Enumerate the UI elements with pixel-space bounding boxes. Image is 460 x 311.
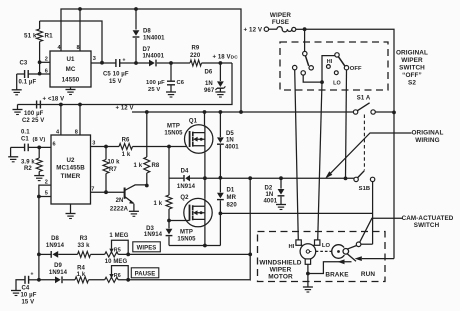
cam follower contact [343, 249, 349, 255]
label 2222A [110, 207, 129, 213]
svg-text:MTP: MTP [180, 229, 193, 235]
wiper fuse [269, 27, 305, 32]
svg-text:C1: C1 [21, 136, 29, 142]
wire node up to pole right [322, 56, 335, 83]
svg-text:PAUSE: PAUSE [135, 272, 156, 278]
switch blade S1B [358, 171, 365, 178]
wire U2 pin8 drop [79, 105, 81, 136]
label 1 k gate resistor [154, 201, 163, 207]
pin label U1-4 [58, 45, 62, 51]
label R3 [80, 236, 88, 242]
zener diode D6 [215, 63, 225, 92]
pin label U1-8 [77, 45, 80, 51]
svg-text:4001: 4001 [264, 199, 278, 205]
ground for C4 [11, 291, 21, 296]
boxed label PAUSE [131, 268, 159, 278]
wire gate line to Q1 [133, 146, 190, 148]
label D8 [143, 29, 151, 35]
label D7 [143, 47, 151, 53]
label WINDSHIELD WIPER MOTOR [259, 259, 301, 280]
node pin2/pin5 junction [37, 195, 41, 199]
label motor HI [289, 244, 295, 250]
arrowhead RUN [355, 256, 362, 261]
wire RUN return [362, 258, 394, 260]
node +18 VDC [219, 61, 223, 65]
node C6 tap [169, 61, 173, 65]
contact pole right S2 [335, 53, 339, 57]
capacitor C5 [116, 58, 149, 68]
node D4 to Q1 source / Q2 drain [203, 176, 207, 180]
wire source rail [169, 245, 220, 247]
label C3 value 0.1 uF [19, 80, 37, 86]
diode D2 [278, 178, 285, 204]
node U2 pin8 supply [78, 103, 82, 107]
node S1A column [392, 111, 396, 115]
node U2 pin4 supply [59, 103, 63, 107]
svg-text:LO: LO [322, 243, 331, 249]
svg-text:WIRING: WIRING [415, 137, 439, 144]
label D3 part 1N914 [144, 232, 163, 238]
ground for C3 [12, 74, 22, 95]
label C2 25 V [22, 118, 44, 124]
label C4 [22, 286, 30, 292]
svg-text:100 µF: 100 µF [146, 80, 165, 86]
contact S1B left [354, 177, 358, 181]
svg-text:0.1 µF: 0.1 µF [19, 80, 37, 86]
label D2 [265, 185, 273, 191]
pin label U2-8 [75, 130, 78, 136]
svg-text:0.1: 0.1 [21, 130, 30, 136]
svg-text:(8 V): (8 V) [33, 137, 46, 143]
node D1 bottom junction [219, 212, 223, 216]
wire U2 pin2 loop [39, 185, 51, 196]
label D6 part 967 [204, 88, 215, 94]
svg-text:C3: C3 [20, 61, 28, 67]
label D1 [227, 187, 235, 193]
label R1 value 51 k [24, 32, 37, 39]
IC U1 box [50, 51, 91, 87]
svg-text:WIPES: WIPES [137, 246, 157, 252]
pin label U1-2 [45, 57, 48, 63]
node R7 bottom on pin7 line [104, 190, 108, 194]
wire pause line right [118, 279, 250, 281]
label R6 value 1 k [122, 152, 131, 158]
svg-text:R9: R9 [192, 46, 200, 52]
contact S1A left [353, 110, 357, 114]
label R6 [122, 138, 130, 144]
label Q1 MTP [167, 123, 180, 129]
node run/pot column [248, 176, 252, 180]
label R4 [77, 266, 85, 272]
svg-text:4001: 4001 [225, 144, 239, 150]
ground for motor [303, 287, 313, 292]
svg-text:+: + [31, 272, 34, 278]
wire Q2 gate lead [169, 220, 190, 222]
ground for C1 [8, 147, 18, 161]
svg-text:51 k: 51 k [24, 32, 37, 39]
svg-text:+ 12 V: + 12 V [244, 27, 263, 34]
svg-text:ORIGINAL: ORIGINAL [411, 129, 443, 136]
wire pots column [249, 178, 251, 280]
svg-text:3.9 k: 3.9 k [21, 160, 35, 166]
callout CAM-ACTUATED line [360, 218, 403, 242]
label U2 TIMER [61, 173, 81, 180]
contact HI right S2 [327, 65, 331, 69]
wire motor bottom to ground node [307, 264, 309, 287]
svg-text:OFF: OFF [350, 66, 362, 72]
ground for D2 [276, 205, 286, 210]
wire U2 pin4 drop [60, 105, 62, 136]
motor shaft to cam [316, 250, 332, 252]
wire +18V feed down and left to C2 line [18, 63, 233, 105]
svg-text:“OFF”: “OFF” [402, 72, 422, 79]
svg-text:ORIGINAL: ORIGINAL [396, 50, 428, 57]
svg-text:1 k: 1 k [134, 163, 143, 169]
svg-text:+: + [123, 58, 126, 64]
wire U2 pin3 line [91, 146, 120, 148]
node D8 bottom on C5 line [134, 61, 138, 65]
svg-text:820: 820 [227, 203, 238, 209]
capacitor C2 [37, 101, 41, 109]
diode D5 [217, 112, 224, 178]
label C5 voltage [109, 79, 122, 85]
svg-text:S2: S2 [408, 80, 416, 87]
node pin2/5 col at pause line [37, 278, 41, 282]
wire R3 to R5 [91, 253, 105, 255]
label ORIGINAL WIPER SWITCH [396, 50, 428, 87]
capacitor C3 [17, 70, 50, 78]
resistor R2 [36, 147, 42, 175]
wire cam contact to S1B column [361, 243, 373, 245]
label HI switch [327, 59, 333, 65]
label R2 [24, 166, 32, 172]
svg-text:1N4001: 1N4001 [143, 54, 165, 60]
svg-text:2: 2 [45, 179, 48, 185]
svg-text:C5 10 µF: C5 10 µF [103, 72, 129, 78]
wire +12V rail [132, 111, 353, 113]
svg-text:U2: U2 [66, 157, 75, 164]
label OFF switch [350, 66, 362, 72]
wire pause line [39, 279, 55, 281]
callout ORIGINAL WIRING line [327, 133, 412, 177]
label R4 value 1 k [77, 272, 86, 278]
label R6 10 MEG [105, 259, 128, 265]
transistor Q1 MTP15N05 [185, 125, 213, 153]
boxed label WIPES [133, 242, 161, 252]
label U2 [66, 157, 75, 164]
svg-text:8: 8 [77, 45, 80, 51]
contact S1B right [370, 177, 374, 181]
svg-text:D8: D8 [51, 236, 59, 242]
transistor Q2N2222A [125, 185, 147, 211]
label D6 [205, 70, 213, 76]
svg-text:D6: D6 [205, 70, 213, 76]
wire pin2/5 column down to D8/D9 rows [38, 197, 40, 280]
contact S1A right [371, 110, 375, 114]
diode D9 [55, 276, 75, 283]
wire Q2 source down [204, 227, 206, 246]
label R9 value 220 [190, 53, 201, 59]
label D4 part 1N914 [177, 184, 196, 190]
svg-text:10 k: 10 k [108, 160, 121, 166]
cam blade up to fixed contact [347, 246, 357, 250]
svg-text:25 V: 25 V [148, 87, 160, 93]
cam fixed contact [356, 242, 361, 247]
node C1/R2 junction pin6 [37, 146, 41, 150]
label Q2 [180, 195, 189, 201]
label U1 part MC [66, 66, 76, 73]
svg-text:1 k: 1 k [122, 152, 131, 158]
diode D1 [217, 178, 224, 214]
node Q1 drain rail [203, 110, 207, 114]
svg-text:MC1455B: MC1455B [56, 165, 85, 172]
resistor R4 [75, 277, 89, 283]
diode D7 [149, 60, 190, 67]
label D3 [146, 226, 154, 232]
svg-text:LO: LO [333, 81, 341, 87]
callout arrowhead [325, 171, 332, 178]
node R7 tap [104, 145, 108, 149]
pin label U2-2 [45, 179, 48, 185]
contact OFF S2 [344, 66, 348, 70]
transistor Q2 MTP15N05 [184, 198, 212, 226]
contact LO-pick S2 [301, 71, 305, 75]
wire fuse to right corner down to S1A node [305, 29, 394, 112]
capacitor C4 [16, 272, 39, 291]
wire top +12V rail from U1 pin4 over to right edge column [61, 9, 241, 112]
label U1 part 14550 [62, 77, 80, 84]
label D8b [51, 236, 59, 242]
svg-text:2: 2 [45, 57, 48, 63]
label C1 value 0.1 [21, 130, 30, 136]
svg-text:TIMER: TIMER [61, 173, 81, 180]
svg-text:R8: R8 [152, 163, 160, 169]
svg-text:3: 3 [93, 56, 96, 62]
svg-text:+ 18 VDC: + 18 VDC [213, 55, 239, 61]
svg-text:SWITCH: SWITCH [414, 222, 440, 229]
svg-text:WIPER: WIPER [401, 57, 423, 64]
node Q2 source on rail [203, 244, 207, 248]
label D5 part 1N [226, 138, 234, 144]
label 2N [116, 198, 124, 204]
svg-text:WINDSHIELD: WINDSHIELD [259, 259, 301, 266]
svg-text:MOTOR: MOTOR [268, 273, 293, 280]
wire wipes line right [118, 253, 250, 255]
label C1 (8 V) [33, 137, 46, 143]
label C5 [103, 72, 129, 78]
cam blade down [347, 254, 356, 262]
svg-text:7: 7 [91, 186, 94, 192]
label BRAKE [325, 271, 349, 278]
svg-text:15N05: 15N05 [164, 130, 183, 136]
label C6 [177, 80, 185, 86]
wire original wiring column down [393, 112, 395, 258]
diode D3 [166, 221, 173, 246]
label D5 [226, 131, 234, 137]
label Q2 MTP [180, 229, 193, 235]
node R8 bottom collector [145, 184, 149, 188]
dashed box original wiper switch [280, 42, 388, 90]
svg-text:220: 220 [190, 53, 201, 59]
svg-text:R3: R3 [80, 236, 88, 242]
svg-text:R5: R5 [114, 248, 121, 254]
diode D4 [169, 175, 205, 181]
contact HI-feed S2 [293, 65, 297, 69]
resistor R6 [119, 144, 133, 150]
label C6 value 100 uF [146, 80, 165, 86]
label C2 value 100 uF [24, 111, 44, 117]
node pots column top [248, 253, 252, 257]
svg-text:15 V: 15 V [22, 300, 35, 306]
ground for R2 [34, 176, 44, 181]
label R7 value 10 k [108, 160, 121, 166]
motor terminal HI square [296, 240, 303, 246]
label FUSE [272, 19, 289, 26]
pin label U1-3 [93, 56, 96, 62]
node Q2 gate / D3 [167, 219, 171, 223]
label R8 value 1 k [134, 163, 143, 169]
svg-text:MC: MC [66, 66, 76, 73]
node D5/D1 on run line [219, 176, 223, 180]
resistor R3 [78, 251, 91, 257]
label D4 [181, 168, 189, 174]
label R3 value 33 k [77, 243, 90, 249]
svg-text:Q1: Q1 [189, 119, 198, 125]
contact pole left S2 [303, 51, 307, 55]
svg-text:15 V: 15 V [109, 79, 122, 85]
label R8 [152, 163, 160, 169]
label +18 Vdc [213, 55, 239, 61]
resistor R1 [37, 21, 43, 73]
label C2 +18V [43, 97, 65, 103]
svg-text:S1 A: S1 A [357, 96, 371, 102]
wire gate branch down [168, 147, 170, 196]
node R6 bracket [126, 278, 130, 282]
svg-text:1N: 1N [205, 81, 213, 87]
dashed box windshield wiper motor [258, 232, 386, 282]
svg-text:WIPER: WIPER [270, 12, 291, 19]
wire Q1 source down [204, 153, 206, 178]
node +12V to R8 [145, 110, 149, 114]
svg-text:MR: MR [227, 195, 237, 201]
resistor R7 [103, 147, 109, 193]
wire wipes line [39, 253, 51, 255]
svg-text:2222A: 2222A [110, 207, 129, 213]
label D9 [54, 263, 62, 269]
motor armature circle [300, 244, 316, 260]
label ORIGINAL WIRING [411, 129, 443, 144]
svg-text:1N914: 1N914 [49, 270, 68, 276]
label R5 1 MEG [109, 233, 128, 239]
pin label U2-3 [92, 141, 95, 147]
label S1 A [357, 96, 371, 102]
svg-text:D5: D5 [226, 131, 234, 137]
cam disc [332, 245, 350, 259]
capacitor C1 [11, 144, 51, 152]
wire U1 pin8 drop [79, 9, 81, 51]
label U2 part MC1455B [56, 165, 85, 172]
wire R4 to R6 pot [89, 279, 105, 281]
node R5 bracket [126, 253, 130, 257]
svg-text:D7: D7 [143, 47, 151, 53]
label R7 [109, 167, 117, 173]
resistor R9 [190, 60, 232, 66]
svg-text:+ <18 V: + <18 V [43, 97, 65, 103]
pin label U2-4 [56, 130, 60, 136]
label D2 part 1N [266, 192, 274, 198]
svg-text:R6: R6 [114, 273, 121, 279]
label D1 part MR [227, 195, 237, 201]
diode D8 [133, 9, 140, 63]
svg-text:2N: 2N [116, 198, 124, 204]
potentiometer R5 [105, 240, 129, 257]
label motor LO [322, 243, 331, 249]
contact LO right S2 [334, 71, 338, 75]
label LO switch [333, 81, 341, 87]
svg-text:SWITCH: SWITCH [399, 65, 425, 72]
label WIPER [270, 12, 291, 19]
svg-text:R7: R7 [109, 167, 117, 173]
wire run line Q side to S1B [205, 177, 354, 179]
svg-text:R1: R1 [45, 32, 54, 39]
svg-text:U1: U1 [66, 56, 75, 63]
svg-text:5: 5 [45, 190, 48, 196]
label C4 15 V [22, 300, 35, 306]
svg-text:C6: C6 [177, 80, 185, 86]
node R1 to U1 pin6 line [38, 72, 42, 76]
svg-text:Q2: Q2 [180, 195, 189, 201]
ground for C6 [166, 92, 176, 97]
svg-text:1N: 1N [266, 192, 274, 198]
node R1 to U1 pin2 [38, 60, 42, 64]
label D5 part 4001 [225, 144, 239, 150]
wire R1 top line over to C5 node [40, 21, 102, 63]
wire U2 pin5 [39, 196, 51, 198]
svg-text:BRAKE: BRAKE [325, 271, 349, 278]
svg-text:R2: R2 [24, 166, 32, 172]
terminal +12V [244, 27, 269, 34]
pin label U2-7 [91, 186, 94, 192]
svg-text:1 MEG: 1 MEG [109, 233, 128, 239]
label CAM-ACTUATED SWITCH [402, 215, 454, 229]
label C3 [20, 61, 28, 67]
label D8 part 1N4001 [143, 35, 165, 41]
label D8b part 1N914 [46, 243, 65, 249]
wire OFF column to run line [346, 70, 347, 178]
svg-text:6: 6 [45, 68, 48, 74]
capacitor C6 [167, 63, 175, 92]
ground for 2N2222A emitter [129, 211, 139, 216]
svg-text:FUSE: FUSE [272, 19, 289, 26]
pin label U1-6 [45, 68, 48, 74]
svg-text:CAM-ACTUATED: CAM-ACTUATED [402, 215, 454, 222]
label RUN [361, 271, 375, 278]
wire D1 junction down to source rail [219, 213, 221, 245]
label Q1 [189, 119, 198, 125]
svg-text:33 k: 33 k [77, 243, 90, 249]
node fuse output [303, 27, 307, 31]
svg-text:967: 967 [204, 88, 215, 94]
switch blade left S2 [305, 56, 308, 66]
mechanical link S1A-S1B dashed [363, 115, 365, 171]
pin label U2-6 [53, 141, 56, 147]
svg-text:D4: D4 [181, 168, 189, 174]
svg-text:R6: R6 [122, 138, 130, 144]
svg-text:C4: C4 [22, 286, 30, 292]
ground for D6 [215, 92, 225, 97]
svg-text:+ 12 V: + 12 V [116, 105, 134, 111]
svg-text:8: 8 [75, 130, 78, 136]
